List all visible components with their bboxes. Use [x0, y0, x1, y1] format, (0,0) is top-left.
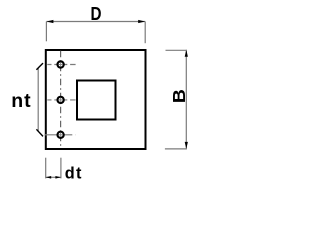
dimension B extension bottom [165, 148, 187, 150]
dimension nt tick bottom [36, 129, 43, 136]
dimension D arrow left [46, 20, 53, 23]
svg-text:dt: dt [65, 164, 83, 182]
bolt hole 2 [58, 97, 64, 103]
bolt hole 1 [58, 61, 64, 67]
plate outline [46, 50, 146, 149]
dimension B arrow top [185, 50, 188, 57]
bolt hole 3 [58, 132, 64, 138]
dimension D line [46, 21, 145, 23]
dimension dt arrow left [46, 176, 52, 179]
dimension D extension right [144, 22, 146, 44]
dimension dt extension right [60, 158, 62, 179]
dimension B arrow bottom [185, 142, 188, 149]
hole centre line 2 [47, 99, 75, 101]
dimension D arrow right [138, 20, 145, 23]
svg-text:nt: nt [11, 90, 31, 112]
dimension dt arrow right [55, 176, 61, 179]
dimension nt tick top [36, 63, 43, 70]
svg-text:B: B [169, 89, 189, 103]
dimension B line [185, 50, 187, 149]
dimension nt line [37, 68, 39, 131]
hole centre line 3 [45, 134, 76, 136]
square hole [77, 81, 116, 120]
dimension dt line [46, 176, 61, 178]
svg-text:D: D [91, 4, 102, 24]
dimension B extension top [166, 49, 187, 51]
dimension dt extension left [45, 158, 47, 179]
dimension D extension left [45, 22, 47, 42]
hole centre line 1 [47, 64, 75, 66]
bolt centre line (vertical dashed) [60, 51, 62, 147]
